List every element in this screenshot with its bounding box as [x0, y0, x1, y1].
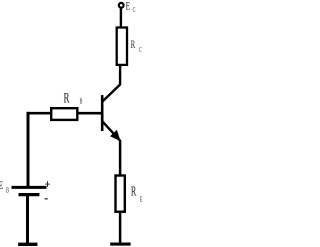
svg-text:E: E	[140, 197, 143, 204]
wire terminal Ec to resistor Rc	[120, 8, 122, 27]
wire base: Rb to Q1	[79, 112, 102, 115]
ground (left)	[18, 243, 37, 246]
label Rc	[131, 38, 142, 55]
wire Eb to ground	[26, 195, 29, 244]
svg-text:C: C	[133, 7, 136, 14]
wire Eb to Rb (horizontal segment)	[27, 112, 52, 115]
svg-text:E: E	[126, 0, 131, 13]
svg-text:E: E	[0, 180, 3, 193]
terminal Ec (collector supply terminal)	[119, 3, 124, 8]
resistor Rc	[117, 28, 127, 65]
svg-text:B: B	[6, 187, 9, 194]
wire Rc to collector of Q1	[119, 66, 121, 85]
svg-text:B: B	[80, 99, 83, 106]
svg-text:R: R	[64, 89, 71, 106]
label - polarity	[45, 198, 48, 200]
battery Eb	[12, 187, 47, 194]
wire emitter of Q1 to Re	[119, 140, 122, 175]
label Rb	[64, 89, 83, 106]
svg-text:C: C	[139, 47, 142, 54]
svg-text:R: R	[131, 184, 137, 199]
label Eb	[0, 180, 9, 195]
ground (right)	[110, 243, 130, 246]
resistor Rb	[51, 108, 77, 120]
label Re	[131, 184, 143, 204]
label Ec	[126, 0, 136, 15]
wire Re to ground	[119, 212, 122, 244]
transistor Q1 (NPN)	[102, 84, 120, 141]
svg-text:R: R	[131, 38, 136, 52]
wire Eb to Rb (vertical segment)	[27, 112, 30, 186]
label + polarity	[45, 181, 50, 187]
resistor Re	[116, 176, 125, 212]
